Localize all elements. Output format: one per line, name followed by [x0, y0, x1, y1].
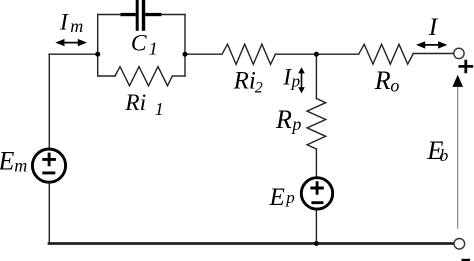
- wire bottom bus: [49, 242, 454, 245]
- wire Rp branch upper: [315, 54, 317, 98]
- node D (Ep bottom junction): [314, 241, 319, 246]
- svg-text:R: R: [374, 66, 391, 95]
- svg-text:C: C: [131, 31, 147, 57]
- wire cap branch left: [98, 14, 121, 16]
- arrow Im (double headed): [55, 39, 87, 46]
- resistor Ro: [359, 44, 414, 64]
- resistor Rp (vertical): [307, 99, 326, 150]
- svg-text:E: E: [269, 184, 285, 211]
- svg-text:m: m: [14, 156, 27, 176]
- wire Ri2 to node: [275, 53, 316, 55]
- plus sign output: [459, 60, 474, 73]
- arrow Eb (up): [452, 75, 463, 229]
- terminal bottom: [454, 239, 465, 250]
- wire Ri1 branch left: [98, 75, 115, 77]
- svg-text:1: 1: [155, 99, 164, 119]
- wire Ro to top terminal: [413, 53, 453, 55]
- wire cap branch right: [161, 14, 185, 16]
- wire Ep to bottom bus: [315, 211, 317, 243]
- svg-text:Ri: Ri: [233, 68, 256, 95]
- svg-text:1: 1: [149, 39, 158, 59]
- wire between box and Ri2: [185, 53, 222, 55]
- svg-text:p: p: [285, 188, 295, 207]
- source Ep: [301, 178, 332, 209]
- svg-text:p: p: [291, 71, 301, 90]
- terminal top: [454, 48, 464, 58]
- svg-text:p: p: [290, 114, 301, 134]
- capacitor C1: [121, 0, 162, 31]
- svg-text:I: I: [428, 12, 439, 41]
- wire Ri1 branch right: [172, 75, 185, 77]
- arrow I (double headed): [416, 41, 447, 48]
- svg-text:o: o: [390, 76, 399, 96]
- wire left rail upper: [48, 54, 50, 147]
- node A (box left junction): [95, 52, 100, 57]
- node B (box right junction): [183, 52, 188, 57]
- wire box right vertical: [184, 15, 186, 77]
- wire main top left segment: [49, 53, 98, 55]
- svg-text:2: 2: [255, 80, 263, 97]
- node C (Rp top junction): [314, 52, 319, 57]
- wire left rail lower: [48, 184, 50, 243]
- source Em: [32, 149, 65, 182]
- svg-text:Ri: Ri: [124, 90, 146, 116]
- svg-text:b: b: [440, 146, 449, 165]
- resistor Ri1: [115, 67, 172, 86]
- arrow Ip (vertical double headed): [298, 67, 305, 93]
- svg-text:m: m: [70, 16, 83, 36]
- minus sign output: [462, 259, 471, 261]
- resistor Ri2: [222, 44, 275, 64]
- wire Rp to Ep: [315, 149, 317, 176]
- svg-text:I: I: [59, 10, 69, 36]
- svg-text:R: R: [275, 105, 292, 134]
- wire box left vertical: [97, 15, 99, 77]
- svg-text:E: E: [0, 146, 15, 175]
- wire node to Ro: [316, 53, 358, 55]
